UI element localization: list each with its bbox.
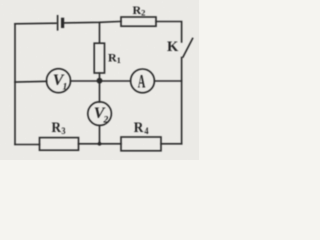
wire: battery to node T (top of R1 branch) to R2 left terminal xyxy=(64,21,121,23)
node J1 (junction dot of R1 branch, V2 branch, middle wire) xyxy=(97,78,103,84)
wire: V2 bottom to node J2 on bottom wire xyxy=(99,125,101,143)
wire: left border from top corner to bottom corner xyxy=(14,24,16,145)
wire: bottom-left corner to resistor R3 xyxy=(15,144,40,146)
battery B1 (cell: long thin plate + short thick plate) xyxy=(58,16,63,30)
scan noise texture (decorative) xyxy=(0,0,1,1)
wire: R3 to node J2 to resistor R4 xyxy=(79,143,122,145)
wire: right border, switch lower contact down to bottom-right corner xyxy=(181,58,183,144)
wire: junction J1 to ammeter A xyxy=(102,80,130,82)
resistor R1 (vertical box) xyxy=(94,43,104,73)
switch K (open blade) xyxy=(183,39,193,58)
wire: junction J1 down to voltmeter V2 xyxy=(99,81,101,102)
wire: top-left segment from left corner to battery xyxy=(15,22,56,25)
node J2 (junction of V2 branch with bottom wire) xyxy=(98,142,102,146)
wire: R1 bottom to junction J1 xyxy=(99,73,101,80)
resistor R4 (box) xyxy=(121,137,161,151)
wire: R2 right terminal to top-right corner xyxy=(156,22,182,43)
voltmeter V1 (circle) xyxy=(47,69,71,93)
voltmeter V2 (circle) xyxy=(88,102,112,126)
wire: R1 branch from top wire down to R1 xyxy=(99,22,101,43)
wire: R4 to bottom-right corner xyxy=(161,143,182,145)
wire: V1 to junction node J1 xyxy=(71,80,97,82)
resistor R3 (box) xyxy=(40,138,79,151)
ammeter A (circle) xyxy=(131,69,155,93)
resistor R2 (box) xyxy=(121,17,156,26)
wire: middle branch, left border to voltmeter V1 xyxy=(15,80,47,83)
wire: ammeter A to right border xyxy=(154,80,181,82)
